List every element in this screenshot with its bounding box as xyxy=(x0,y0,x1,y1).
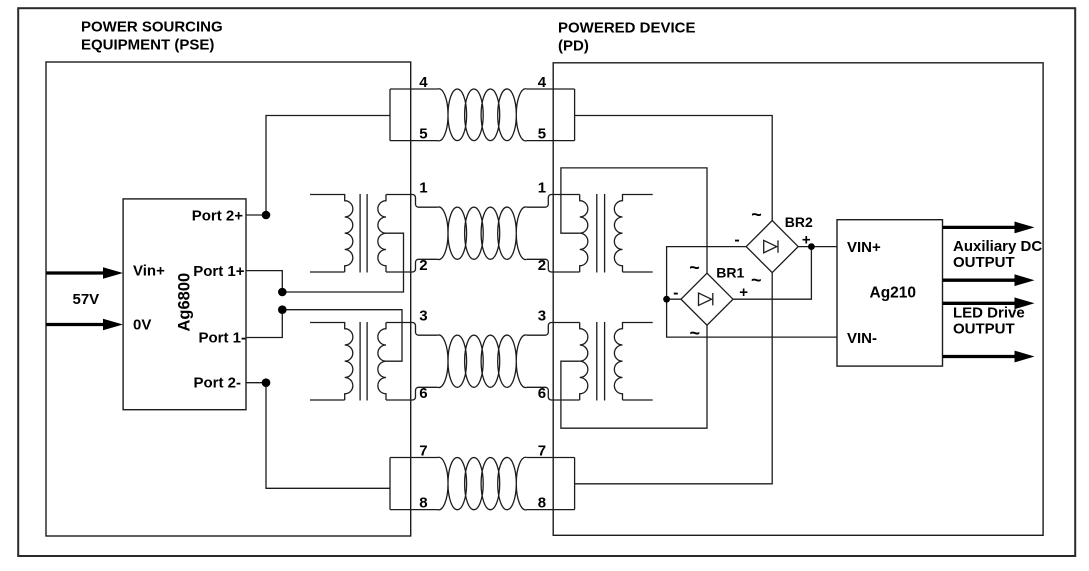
wire net BR1 minus / BR2 minus / VIN- xyxy=(667,247,837,338)
transformer T2 (PSE pair 3/6) line winding (centre-tapped) xyxy=(378,323,386,401)
svg-text:BR2: BR2 xyxy=(785,214,813,230)
svg-text:4: 4 xyxy=(538,74,547,91)
svg-text:0V: 0V xyxy=(133,317,151,334)
svg-text:6: 6 xyxy=(538,385,546,402)
svg-text:POWER SOURCING: POWER SOURCING xyxy=(81,18,223,35)
transformer T3 (PD pair 1/2) core xyxy=(597,194,605,273)
output arrow LED drive 2 xyxy=(943,355,1016,358)
twisted pair cable 7/8 wire A xyxy=(390,458,575,510)
svg-text:Port 1+: Port 1+ xyxy=(193,263,245,280)
twisted pair cable 3/6 xyxy=(438,335,527,388)
svg-text:VIN+: VIN+ xyxy=(847,239,881,256)
wire pin jog left top 3/6 xyxy=(386,323,438,336)
wire pin jog left bottom 3/6 xyxy=(386,387,438,400)
svg-text:~: ~ xyxy=(689,257,700,277)
wire net BR1 plus / BR2 plus / VIN+ xyxy=(733,247,837,300)
svg-text:+: + xyxy=(739,284,748,301)
svg-text:Vin+: Vin+ xyxy=(133,262,165,279)
wire pin jog right bottom 1/2 xyxy=(527,259,580,272)
svg-text:OUTPUT: OUTPUT xyxy=(953,321,1015,338)
shorting bar left pair 7/8 xyxy=(389,458,391,510)
svg-text:3: 3 xyxy=(419,307,427,324)
junction dot Port 2- xyxy=(262,378,271,387)
twisted pair cable 1/2 xyxy=(438,207,527,260)
transformer T1 (PSE pair 1/2) data winding xyxy=(310,195,353,273)
twisted pair cable 7/8 wire B xyxy=(438,457,527,510)
svg-text:+: + xyxy=(802,231,811,248)
transformer T4 (PD pair 3/6) core xyxy=(597,322,605,401)
svg-text:LED Drive: LED Drive xyxy=(953,305,1025,322)
wire pin jog left top 1/2 xyxy=(386,195,438,208)
wire pin jog right top 1/2 xyxy=(527,195,580,208)
svg-text:8: 8 xyxy=(419,494,427,511)
output arrow LED drive 1 xyxy=(943,302,1016,305)
svg-text:Port 2+: Port 2+ xyxy=(192,208,244,225)
svg-text:~: ~ xyxy=(751,204,762,224)
shorting bar right pair 7/8 xyxy=(574,458,576,510)
svg-text:Auxiliary DC: Auxiliary DC xyxy=(953,238,1042,255)
bridge rectifier BR1 body xyxy=(681,273,733,325)
transformer T2 (PSE pair 3/6) core xyxy=(360,322,367,401)
IC U1 Ag6800 box xyxy=(123,199,246,410)
svg-text:1: 1 xyxy=(538,179,546,196)
svg-text:~: ~ xyxy=(689,323,700,343)
junction dot Port 1- xyxy=(278,305,287,314)
wire pin jog right bottom 3/6 xyxy=(527,387,580,400)
wire net Port 1- to T2 centre tap xyxy=(246,310,402,362)
output arrow auxiliary DC 1 xyxy=(943,226,1016,229)
svg-text:7: 7 xyxy=(538,442,546,459)
wire net T4 centre tap to BR1 AC2 xyxy=(561,325,707,428)
bridge rectifier BR2 body xyxy=(746,221,798,273)
wire pin jog left bottom 1/2 xyxy=(386,259,438,272)
svg-text:Ag210: Ag210 xyxy=(870,285,917,302)
twisted pair cable 4/5 wire A xyxy=(390,89,575,141)
transformer T4 (PD pair 3/6) data winding xyxy=(614,323,652,401)
twisted pair cable 4/5 wire B xyxy=(438,89,527,141)
svg-text:POWERED DEVICE: POWERED DEVICE xyxy=(558,20,696,37)
svg-text:8: 8 xyxy=(538,494,546,511)
svg-text:5: 5 xyxy=(538,126,546,143)
svg-text:BR1: BR1 xyxy=(716,265,744,281)
shorting bar right pair 4/5 xyxy=(574,89,576,141)
svg-text:Port 1-: Port 1- xyxy=(198,330,246,347)
svg-text:4: 4 xyxy=(419,74,428,91)
svg-text:3: 3 xyxy=(538,307,546,324)
wire net T3 centre tap to BR1 AC1 xyxy=(561,168,707,273)
svg-text:Ag6800: Ag6800 xyxy=(176,273,194,332)
svg-text:-: - xyxy=(673,285,678,302)
wire net pair 7/8 to BR2 AC2 xyxy=(575,273,773,484)
svg-text:5: 5 xyxy=(419,126,427,143)
bridge rectifier BR1 diode symbol xyxy=(699,293,713,305)
svg-text:Port 2-: Port 2- xyxy=(193,375,241,392)
junction dot Port 1+ xyxy=(278,288,287,297)
transformer T1 (PSE pair 1/2) line winding (centre-tapped) xyxy=(378,195,386,273)
junction dot Port 2+ xyxy=(262,211,271,220)
bridge rectifier BR2 diode symbol xyxy=(764,240,778,252)
svg-text:1: 1 xyxy=(419,179,427,196)
svg-text:6: 6 xyxy=(419,385,427,402)
svg-text:(PD): (PD) xyxy=(558,38,589,55)
output arrow auxiliary DC 2 xyxy=(943,279,1016,282)
wire pin jog right top 3/6 xyxy=(527,323,580,336)
svg-text:7: 7 xyxy=(419,442,427,459)
svg-text:57V: 57V xyxy=(73,291,100,308)
svg-text:~: ~ xyxy=(751,270,762,290)
IC U2 Ag210 box xyxy=(837,220,943,366)
input arrow 0V xyxy=(47,323,105,326)
svg-text:2: 2 xyxy=(538,257,546,274)
transformer T1 (PSE pair 1/2) core xyxy=(360,194,367,273)
junction dot VIN+ node xyxy=(808,243,815,250)
svg-text:OUTPUT: OUTPUT xyxy=(953,254,1015,271)
PD enclosure box xyxy=(553,63,1043,536)
svg-text:-: - xyxy=(734,231,739,248)
svg-text:VIN-: VIN- xyxy=(847,330,877,347)
PSE enclosure box xyxy=(46,62,411,536)
svg-text:EQUIPMENT (PSE): EQUIPMENT (PSE) xyxy=(81,36,214,53)
svg-text:2: 2 xyxy=(419,257,427,274)
junction dot BR1 minus node xyxy=(663,296,670,303)
transformer T3 (PD pair 1/2) line winding (centre-tapped) xyxy=(580,195,588,273)
transformer T4 (PD pair 3/6) line winding (centre-tapped) xyxy=(580,323,588,401)
wire net Port 2+ to pair 4/5 feed xyxy=(246,116,390,216)
wire net Port 2- to pair 7/8 feed xyxy=(246,383,390,489)
transformer T2 (PSE pair 3/6) data winding xyxy=(310,323,353,401)
input arrow Vin+ 57V xyxy=(47,271,105,274)
transformer T3 (PD pair 1/2) data winding xyxy=(614,195,652,273)
wire net Port 1+ to T1 centre tap xyxy=(246,233,404,292)
wire net pair 4/5 to BR2 AC1 xyxy=(575,116,773,221)
shorting bar left pair 4/5 xyxy=(389,89,391,141)
